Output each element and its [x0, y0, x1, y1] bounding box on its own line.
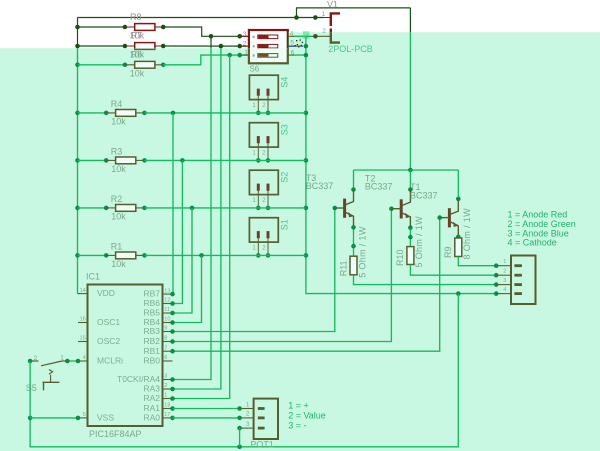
- junction on VDD bus: [75, 25, 80, 30]
- junction row R4: [304, 111, 309, 116]
- junction on R10 chain: [408, 225, 413, 230]
- junction collector rail / V+ drop: [408, 168, 413, 173]
- svg-text:R11: R11: [338, 260, 348, 276]
- dip slider tick: [253, 36, 255, 38]
- wire: R9 emitter chain: [457, 237, 459, 238]
- svg-text:BC337: BC337: [306, 181, 334, 191]
- resistor R4 body: [116, 110, 136, 117]
- dip switch S6 slider 1: [258, 35, 278, 39]
- IC pin stub right 11: [163, 312, 173, 314]
- wire: branch up to top rail: [297, 8, 411, 18]
- wire: riser RA2 to R6 row: [173, 55, 230, 398]
- junction IC right pin: [170, 377, 175, 382]
- junction left of R4: [104, 111, 109, 116]
- junction right of R7: [161, 44, 166, 49]
- transistor T1 emitter lead: [450, 222, 458, 237]
- transistor T3 base stub: [335, 207, 345, 209]
- switch S1 pin pad: [267, 231, 270, 238]
- junction IC right pin: [170, 329, 175, 334]
- switch S1 box: [249, 218, 278, 242]
- switch S5 actuator bar: [43, 381, 60, 383]
- connector POT1 box: [254, 399, 278, 439]
- wire: R10 emitter chain: [409, 228, 411, 247]
- switch S1 pin lead: [267, 238, 269, 255]
- switch S5 actuator chevron: [49, 370, 53, 375]
- wire: branch up to top rail: [297, 8, 411, 18]
- IC pin stub right 17: [163, 417, 173, 419]
- junction S3 pin: [256, 158, 261, 163]
- dip slider tick: [253, 45, 255, 47]
- IC pin stub right 18: [163, 408, 173, 410]
- svg-text:MCLRi: MCLRi: [97, 356, 123, 366]
- junction POT pin3 on bottom loop: [237, 445, 242, 450]
- wire: riser RA2 to R6 row: [173, 55, 230, 398]
- svg-text:R6: R6: [131, 50, 143, 60]
- connector POT1 pin pad: [258, 427, 265, 430]
- connector V1 pin 1 stub: [324, 17, 331, 19]
- junction MCLR row: [65, 359, 70, 364]
- IC pin stub right 18: [163, 408, 173, 410]
- wire: RB2 row to T2 base: [173, 209, 400, 342]
- transistor T2 collector lead: [402, 190, 411, 206]
- dip switch S6 slider 1: [258, 35, 278, 39]
- svg-text:7: 7: [164, 345, 167, 351]
- IC pin stub left 5: [78, 417, 88, 419]
- resistor R10 body: [407, 247, 414, 265]
- junction POT pin 2: [237, 416, 242, 421]
- svg-text:4 = Cathode: 4 = Cathode: [508, 238, 557, 248]
- resistor R1 leads: [106, 254, 116, 256]
- junction T3 collector: [351, 187, 356, 192]
- transistor T2 base stub: [391, 208, 401, 210]
- junction T1 collector: [456, 197, 461, 202]
- svg-text:10k: 10k: [111, 164, 126, 174]
- svg-text:8: 8: [164, 336, 167, 342]
- wire: blue segment DIP pin 5: [288, 45, 303, 47]
- svg-text:S5: S5: [26, 383, 37, 393]
- junction RA4 riser top: [209, 34, 214, 39]
- switch S5 actuator stem: [50, 375, 52, 383]
- junction left of R2: [104, 206, 109, 211]
- resistor R6 leads: [125, 64, 135, 66]
- svg-text:3: 3: [243, 31, 247, 38]
- switch S5 pin stub right: [62, 360, 67, 362]
- connector LED pin stub: [496, 293, 511, 295]
- transistor T3 emitter arrow: [349, 212, 354, 217]
- junction on VDD wire near V1: [313, 15, 318, 20]
- wire: DIP pin6 to common vertical: [295, 54, 306, 56]
- junction dip row2: [304, 44, 309, 49]
- resistor R3 body: [116, 157, 136, 164]
- svg-text:18: 18: [164, 403, 170, 409]
- junction right of R1: [142, 253, 147, 258]
- switch S5 actuator post: [43, 382, 45, 390]
- artifact speck: [295, 45, 296, 46]
- wire: left VDD bus vertical: [77, 18, 79, 294]
- junction left of R3: [104, 158, 109, 163]
- IC pin stub right 7: [163, 350, 173, 352]
- svg-text:2: 2: [34, 355, 38, 362]
- IC1 box: [88, 285, 163, 427]
- switch S5 actuator post: [43, 382, 45, 390]
- svg-text:2: 2: [243, 41, 247, 48]
- wire: R9 bottom to connector row: [458, 257, 496, 266]
- svg-text:1: 1: [60, 354, 64, 361]
- junction S3 pin: [256, 158, 261, 163]
- junction S1 pin: [256, 253, 261, 258]
- wire: R1 row to common vertical: [145, 254, 306, 256]
- connector LED pin pad: [514, 283, 522, 286]
- wire: riser RB6 to R3 row: [173, 160, 183, 303]
- wire: S5 down to VSS row: [29, 361, 31, 418]
- junction T3 base: [333, 206, 338, 211]
- resistor R2 body: [116, 205, 136, 212]
- junction right of R2: [142, 206, 147, 211]
- connector POT1 box: [254, 399, 278, 439]
- svg-text:11: 11: [164, 307, 170, 313]
- svg-text:1: 1: [164, 393, 167, 399]
- junction riser on R1 row: [199, 253, 204, 258]
- svg-text:10k: 10k: [111, 259, 126, 269]
- junction left of R1: [104, 253, 109, 258]
- connector V1 pin 2 stub: [324, 35, 331, 37]
- transistor T1 base stub: [440, 217, 450, 219]
- junction S4 pin: [256, 111, 261, 116]
- svg-text:R7: R7: [131, 31, 143, 41]
- wire: common row to LED pin 4: [458, 293, 496, 295]
- switch S4 pin pad: [257, 89, 260, 96]
- wire: R8 to DIP pin 3: [163, 27, 247, 36]
- IC pin stub left 15: [78, 341, 88, 343]
- junction V1 pin2 row: [313, 34, 318, 39]
- wire: RA0 row to POT pin 2: [173, 417, 240, 419]
- wire: R11 emitter chain: [353, 227, 355, 256]
- connector POT1 pin pad: [258, 407, 265, 410]
- svg-text:5 Ohm / 1W: 5 Ohm / 1W: [414, 216, 424, 268]
- wire: R11 bottom to connector row: [354, 275, 497, 285]
- svg-text:R3: R3: [111, 146, 123, 156]
- wire: R1 row: [78, 254, 107, 256]
- resistor R9 body: [455, 238, 462, 257]
- junction at DIP pin 3: [237, 34, 242, 39]
- junction S1 pin: [256, 253, 261, 258]
- switch S2 pin lead: [267, 191, 269, 208]
- transistor T3 base bar: [343, 199, 346, 218]
- artifact green blob at DIP pin 4 junction: [303, 31, 310, 38]
- switch S3 box: [249, 123, 278, 147]
- IC pin stub right 12: [163, 303, 173, 305]
- junction IC right pin: [170, 311, 175, 316]
- junction S3 pin: [266, 158, 271, 163]
- dip switch S6 slider 3: [258, 54, 278, 58]
- junction on VDD wire: [294, 15, 299, 20]
- junction S1 pin: [266, 253, 271, 258]
- wire: R1 row to common vertical: [145, 254, 306, 256]
- dip pin stubs left: [241, 35, 249, 37]
- switch S2 pin pad: [257, 184, 260, 191]
- dip slider tick: [253, 36, 255, 38]
- resistor R8 body: [135, 24, 155, 31]
- junction on R11 chain: [351, 225, 356, 230]
- wire: R8 row from bus: [78, 26, 125, 28]
- transistor T1 base stub: [440, 217, 450, 219]
- switch S2 pin lead: [257, 191, 259, 208]
- junction IC right pin: [170, 349, 175, 354]
- svg-text:RB3: RB3: [143, 326, 160, 336]
- junction RB7 riser on R4 row: [171, 111, 176, 116]
- switch S1 pin lead: [257, 238, 259, 255]
- junction left of R3: [104, 158, 109, 163]
- junction RA2 riser top: [227, 53, 232, 58]
- transistor T3 emitter arrow: [349, 212, 354, 217]
- resistor R11 body: [350, 256, 357, 275]
- wire: MCLR row: [67, 360, 78, 362]
- IC pin stub right 8: [163, 341, 173, 343]
- IC pin stub right 1: [163, 398, 173, 400]
- svg-text:R9: R9: [443, 246, 453, 258]
- svg-text:S6: S6: [249, 65, 259, 74]
- transistor T2 base stub: [391, 208, 401, 210]
- switch S1 pin pad: [257, 231, 260, 238]
- connector LED pin stub: [496, 284, 511, 286]
- wire: MCLR row: [67, 360, 78, 362]
- junction on VDD wire near V1: [313, 15, 318, 20]
- resistor R2 body: [116, 205, 136, 212]
- dip pin stubs right: [288, 35, 295, 37]
- junction S4 pin: [266, 111, 271, 116]
- switch S5 actuator bar: [43, 381, 60, 383]
- artifact speck: [301, 45, 302, 46]
- switch S4 pin lead: [267, 96, 269, 113]
- junction RA3 riser top: [219, 44, 224, 49]
- switch S3 box: [249, 123, 278, 147]
- junction RA3 riser top: [219, 44, 224, 49]
- svg-text:3 = -: 3 = -: [288, 421, 306, 431]
- artifact speck: [301, 45, 302, 46]
- connector LED pin stub: [496, 274, 511, 276]
- svg-text:RA3: RA3: [143, 384, 160, 394]
- svg-text:S1: S1: [280, 219, 290, 230]
- connector LED pin stub: [496, 284, 511, 286]
- junction riser on R2 row: [190, 206, 195, 211]
- svg-text:RB2: RB2: [143, 336, 160, 346]
- junction dip row3: [304, 53, 309, 58]
- wire: VSS row into IC pin 5: [30, 417, 78, 419]
- junction LED pin row: [494, 291, 499, 296]
- junction on VDD wire: [294, 15, 299, 20]
- wire: RB1 row to T1 base: [173, 218, 448, 352]
- junction IC right pin: [170, 416, 175, 421]
- transistor T2 emitter lead: [402, 213, 411, 228]
- transistor T3 collector lead: [345, 190, 353, 205]
- junction S4 pin: [256, 111, 261, 116]
- switch S3 pin pad: [267, 136, 270, 143]
- wire: riser RA3 to R7 row: [173, 46, 221, 389]
- junction row R1: [304, 253, 309, 258]
- wire: R2 row: [78, 207, 107, 209]
- wire: RB3 row to T3 base: [173, 208, 344, 332]
- junction right of R6: [161, 63, 166, 68]
- junction riser on R1 row: [199, 253, 204, 258]
- junction on R11 chain: [351, 225, 356, 230]
- junction LED pin row: [494, 282, 499, 287]
- junction RB7 riser on R4 row: [171, 111, 176, 116]
- junction IC right pin: [170, 396, 175, 401]
- svg-text:10k: 10k: [111, 212, 126, 222]
- resistor R1 leads: [106, 254, 116, 256]
- svg-text:OSC2: OSC2: [97, 336, 120, 346]
- svg-text:1: 1: [244, 50, 248, 57]
- resistor R10 body: [407, 247, 414, 265]
- svg-text:S3: S3: [280, 124, 290, 135]
- svg-text:10k: 10k: [130, 68, 145, 78]
- resistor R6 leads: [125, 64, 135, 66]
- wire: R2 row to common vertical: [145, 207, 306, 209]
- resistor R4 body: [116, 110, 136, 117]
- dip slider tick: [253, 45, 255, 47]
- wire: R4 row: [78, 112, 107, 114]
- svg-text:2: 2: [164, 383, 167, 389]
- svg-text:6: 6: [291, 49, 295, 56]
- connector V1 pin 2 stub: [324, 35, 331, 37]
- junction IC right pin: [170, 292, 175, 297]
- IC pin stub left 4: [78, 360, 88, 362]
- artifact speck: [298, 46, 299, 47]
- junction IC right pin: [170, 387, 175, 392]
- connector POT1 pin pad: [258, 416, 265, 419]
- resistor R2 leads: [106, 207, 116, 209]
- junction S5 pin 2: [28, 359, 33, 364]
- wire: rail drop to T3 collector: [353, 170, 355, 190]
- svg-text:5 Ohm / 1W: 5 Ohm / 1W: [357, 226, 367, 278]
- switch S4 box: [249, 75, 278, 99]
- resistor R3 body: [116, 157, 136, 164]
- dip pin stubs right: [288, 35, 295, 37]
- resistor R4 leads: [106, 112, 116, 114]
- wire: R9 emitter chain: [457, 237, 459, 238]
- junction VSS pin: [76, 416, 81, 421]
- wire: R4 row to common vertical: [145, 112, 306, 114]
- IC pin stub right 13: [163, 293, 173, 295]
- wire: VDD bus elbow into IC pin 14: [78, 293, 80, 295]
- junction right of R7: [161, 44, 166, 49]
- junction MCLR pin: [76, 359, 81, 364]
- wire: common net V1 pin2 row: [306, 35, 311, 37]
- IC pin stub right 9: [163, 331, 173, 333]
- connector LED pin pad: [514, 264, 522, 267]
- switch S1 pin lead: [257, 238, 259, 255]
- junction IC right pin: [170, 339, 175, 344]
- wire: R6 row to DIP pin 1: [163, 55, 247, 65]
- junction on VDD bus: [75, 253, 80, 258]
- switch S2 pin lead: [257, 191, 259, 208]
- junction on R11 chain: [351, 244, 356, 249]
- wire: collector rail: [354, 169, 459, 171]
- wire: blue segment DIP pin 5: [288, 45, 303, 47]
- junction IC right pin: [170, 311, 175, 316]
- resistor R3 leads: [106, 159, 116, 161]
- junction LED pin row: [494, 291, 499, 296]
- junction IC right pin: [170, 396, 175, 401]
- resistor R9 body: [455, 238, 462, 257]
- switch S4 pin pad: [267, 89, 270, 96]
- artifact speck: [297, 44, 298, 45]
- svg-text:OSC1: OSC1: [97, 317, 120, 327]
- IC pin stub left 5: [78, 417, 88, 419]
- svg-text:12: 12: [164, 298, 170, 304]
- transistor T3 emitter lead: [345, 212, 353, 227]
- transistor T2 emitter lead: [402, 213, 411, 228]
- svg-text:BC337: BC337: [365, 182, 393, 192]
- wire: riser RB4 to R1 row: [173, 255, 202, 322]
- switch S3 pin lead: [257, 143, 259, 160]
- junction dip row3: [304, 53, 309, 58]
- svg-text:1: 1: [503, 259, 506, 265]
- junction on VDD bus: [75, 111, 80, 116]
- wire: R9 bottom to connector row: [458, 257, 496, 266]
- junction on VDD bus: [75, 158, 80, 163]
- dip pin stubs left: [241, 35, 249, 37]
- switch S1 pin pad: [257, 231, 260, 238]
- wire: riser RB7 to R4 row: [172, 113, 174, 294]
- junction S2 pin: [256, 206, 261, 211]
- switch S5 lever: [41, 361, 62, 366]
- common vertical down the switch column: [306, 36, 458, 293]
- switch S4 box: [249, 75, 278, 99]
- junction VSS pin: [76, 416, 81, 421]
- IC pin stub right 8: [163, 341, 173, 343]
- resistor R1 body: [116, 252, 136, 259]
- wire: S5 down to VSS row: [29, 361, 31, 418]
- IC pin stub right 12: [163, 303, 173, 305]
- wire: top rail drop to collector rail: [409, 8, 411, 170]
- wire: R3 row to common vertical: [145, 159, 306, 161]
- wire: riser RB4 to R1 row: [173, 255, 202, 322]
- junction T1 base: [437, 215, 442, 220]
- wire: R3 row: [78, 159, 107, 161]
- resistor R3 leads: [106, 159, 116, 161]
- junction MCLR pin: [76, 359, 81, 364]
- junction common row / bottom drop: [456, 291, 461, 296]
- svg-text:V1: V1: [327, 0, 338, 10]
- wire: RB1 row to T1 base: [173, 218, 448, 352]
- junction row R1: [304, 253, 309, 258]
- junction right of R8: [161, 25, 166, 30]
- transistor T3 collector lead: [345, 190, 353, 205]
- resistor R6 body: [135, 61, 155, 68]
- transistor T1 emitter lead: [450, 222, 458, 237]
- junction dip row2: [304, 44, 309, 49]
- wire: right drop to bottom loop: [30, 294, 458, 447]
- wire: DIP pin4 row to V1 pin 2: [295, 35, 306, 37]
- connector V1 pin 1 bracket: [331, 13, 340, 26]
- wire: RA0 row to POT pin 2: [173, 417, 240, 419]
- switch S5 lever: [41, 361, 62, 366]
- junction right of R2: [142, 206, 147, 211]
- IC pin stub right 10: [163, 322, 173, 324]
- connector LED box: [511, 256, 536, 305]
- svg-text:2: 2: [503, 269, 506, 275]
- junction on VDD bus: [75, 44, 80, 49]
- wire: R4 row: [78, 112, 107, 114]
- transistor T1 collector lead: [450, 199, 458, 215]
- resistor R7 leads: [125, 45, 135, 47]
- wire: R1 row: [78, 254, 107, 256]
- svg-text:14: 14: [80, 288, 86, 294]
- dip slider tick: [253, 54, 255, 56]
- junction T3 base: [333, 206, 338, 211]
- wire: rail drop to T2 collector: [409, 170, 411, 190]
